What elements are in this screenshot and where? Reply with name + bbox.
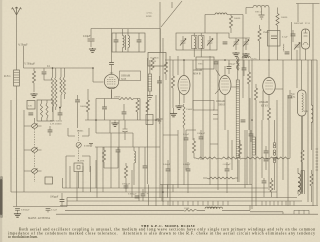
wire: R1 to ground [33, 83, 35, 92]
capacitor C32 [241, 120, 246, 122]
wire: R20 leads [311, 170, 313, 202]
capacitor C20 [291, 34, 296, 36]
wire: earth line [13, 198, 67, 207]
variable capacitor VC5 [233, 40, 239, 47]
wire: V1 grid from aerial bus [93, 68, 104, 82]
tube V4 output envelope [263, 78, 276, 95]
wire: coupling tap [23, 46, 25, 68]
wire: C14 leads [144, 147, 146, 193]
wire: C31 leads [250, 130, 252, 142]
wire: chassis bus 5 [67, 172, 302, 201]
resistor R15 long dropper third [243, 157, 267, 159]
svg-text:½ 500µµF: ½ 500µµF [24, 63, 35, 66]
wire: C8 leads [115, 33, 117, 52]
capacitor C39 [264, 151, 269, 153]
svg-text:0.0005: 0.0005 [77, 131, 84, 133]
wire: C42 leads [111, 29, 113, 66]
wire: R4 leads [137, 99, 139, 121]
wire: lower HT rail [85, 119, 160, 121]
svg-text:0.04µF: 0.04µF [163, 163, 171, 166]
wire: R2 leads [87, 89, 89, 120]
wire: C43 leads [228, 60, 230, 74]
wire: staircase step [250, 212, 283, 215]
capacitor C7 0.04 [88, 39, 95, 41]
wire: L2 leads [61, 68, 64, 107]
capacitor C11 [122, 112, 127, 114]
capacitor C10 [102, 107, 107, 109]
wire: HT bus right [277, 50, 317, 205]
resistor R21 [164, 62, 167, 74]
tube V1 anode [108, 86, 115, 88]
wire: R17 leads [193, 138, 195, 158]
wire: V2 gnd stub [173, 108, 175, 112]
wire: R12 leads [277, 8, 279, 61]
svg-text:100µµF: 100µµF [122, 183, 131, 186]
capacitor C42 top-cap coupler [109, 63, 114, 65]
IF transformer T1 windings [123, 35, 130, 50]
svg-text:+0.04µF: +0.04µF [222, 163, 231, 166]
wire: VC6 leads [245, 38, 247, 50]
svg-text:R.F.C.: R.F.C. [207, 207, 213, 209]
wire: comb of drops onto bus A right [262, 201, 294, 206]
capacitor C21 [285, 52, 290, 54]
ground below VC5 [232, 52, 239, 56]
wire: comb of drops onto bus A left [163, 201, 228, 206]
ground below C38 [157, 119, 163, 123]
inductor L5 oscillator coil [134, 151, 136, 163]
resistor R12 [276, 14, 279, 26]
wire: chassis bus 7 [65, 206, 250, 211]
wire: osc box outline [176, 33, 217, 50]
transformer T3 output primary [298, 174, 300, 191]
wire: C17 leads [216, 60, 220, 76]
switch unit box [148, 53, 166, 67]
ground below V2 [175, 105, 182, 109]
capacitor C38 [157, 81, 162, 83]
capacitor C25 [186, 169, 191, 171]
inductor L10 coil form [148, 74, 151, 91]
resistor R4 [136, 100, 139, 112]
wire: C5 leads [47, 211, 49, 213]
variable capacitor VC7 [294, 43, 300, 50]
capacitor C6 100 [60, 200, 65, 202]
wire: R9 leads [248, 60, 250, 130]
capacitor C40 [264, 159, 269, 161]
wire: chassis bus 4 [67, 197, 297, 199]
resistor R29 second dropper row [207, 177, 235, 179]
capacitor C4 0.002 [15, 208, 20, 210]
wire: C27 column [274, 120, 276, 190]
wire: gang2 shaft dashed [78, 130, 80, 162]
svg-text:X 63: X 63 [121, 78, 127, 81]
trimmer box L.W. [27, 101, 35, 110]
variable capacitor VC1c (tuning gang) [32, 169, 38, 174]
transformer T3 secondary [298, 183, 300, 196]
ground cup right of VC2 [89, 144, 93, 147]
wire: L10 leads [149, 60, 151, 95]
wire: chassis bus 6 [60, 205, 318, 207]
wire: R24 top lead [237, 60, 239, 182]
inductor L8 IF choke [215, 13, 227, 15]
tube V4 anode bar [267, 79, 272, 81]
ground below C7 [89, 48, 96, 52]
wire: R29 leads [203, 177, 238, 179]
wire: T3 leads [298, 168, 305, 194]
svg-text:0.04µF: 0.04µF [83, 35, 91, 38]
wire: centre verticals long [163, 38, 247, 202]
wire: VC3 leads [182, 36, 184, 50]
tube V3 electrodes [222, 81, 229, 90]
capacitor C35 [48, 130, 53, 132]
wire: V2 leads [180, 60, 185, 105]
wire: mains top rail [292, 4, 320, 61]
wire: R22 leads [172, 60, 174, 108]
resistor R14 long dropper second [219, 157, 243, 159]
capacitor C5 500 [46, 208, 51, 210]
inductor L9 hum filter [282, 44, 285, 51]
capacitor C15 electrolytic [141, 192, 149, 196]
wire: V1 anode rise [111, 73, 113, 75]
wire: mid verticals [96, 58, 156, 206]
capacitor C27 electrolytic stack [273, 143, 276, 163]
capacitor C37 [28, 113, 33, 115]
tube V6 inner filament coil [302, 93, 303, 112]
inductor L14 smoothing choke [311, 105, 313, 122]
wire: L14 leads [310, 60, 312, 150]
junction dot [59, 107, 61, 109]
resistor R8 long cathode [183, 104, 185, 128]
tube V1 frequency changer envelope [104, 74, 118, 88]
wire: V1 column drops [96, 90, 112, 133]
svg-text:0.002µF: 0.002µF [21, 209, 30, 212]
wire: diagonal switch arm [161, 1, 182, 27]
capacitor C22 [184, 138, 189, 140]
wire: C26 leads [226, 162, 228, 193]
wire: R21 lead [165, 74, 167, 80]
wire: L1 top/bottom leads [53, 68, 56, 112]
wire: long feed right [242, 15, 244, 61]
wire: C15 leads [142, 189, 144, 201]
resistor R25 inline on bus [183, 209, 197, 211]
svg-text:0.1µF: 0.1µF [282, 36, 288, 39]
wire: V3 leads [215, 66, 239, 130]
resistor R22 [171, 76, 174, 88]
tube V3 anode bar [223, 77, 228, 79]
tube V5 rectifier envelope [302, 29, 310, 49]
resistor R1 0.25M [32, 71, 35, 83]
wire: C20 leads [292, 30, 294, 42]
wire: grid-leak drop [33, 68, 35, 71]
tube V2 oscillator envelope [178, 76, 190, 95]
wire: cap drop C2 [43, 68, 45, 71]
gutter shadow left edge [0, 176, 3, 218]
resistor R20 speaker field [310, 174, 313, 186]
capacitor C28 [262, 181, 267, 183]
wire: gang2 taps [66, 128, 90, 188]
inductor L13 inline on bus [205, 207, 223, 209]
svg-text:0.1µF: 0.1µF [51, 209, 58, 212]
oscillator section box [196, 57, 214, 69]
tube V3 detector envelope [219, 76, 231, 95]
wire: R10 leads [255, 84, 257, 206]
inductor L1 secondary [55, 77, 57, 107]
small box lower-left of V2 [146, 115, 153, 125]
ground mid [111, 122, 118, 126]
svg-text:50000: 50000 [80, 105, 87, 108]
tube V1 top cap [110, 71, 113, 75]
svg-text:¼ 50µµF: ¼ 50µµF [18, 44, 28, 47]
svg-text:100µµF: 100µµF [228, 64, 236, 66]
wire: coil leads [42, 100, 48, 121]
capacitor C29 [124, 186, 129, 188]
wire: aerial down-lead [16, 15, 18, 207]
wire: VC bus [217, 33, 250, 38]
wire: V4 leads [263, 60, 283, 120]
svg-text:to modulation hum.: to modulation hum. [8, 235, 38, 239]
capacitor C36 boxed [268, 31, 281, 47]
resistor R3 horizontal [118, 97, 134, 99]
wire: L6 L7 leads [194, 33, 201, 57]
wire: C13 leads [117, 147, 119, 168]
wire: C18 leads [243, 60, 245, 76]
variable capacitor VC1b (tuning gang) [32, 148, 38, 153]
svg-text:100µµF: 100µµF [50, 196, 59, 199]
wire: stair verticals [70, 120, 173, 206]
wire: HT top rail [165, 59, 317, 61]
wire: VC4 leads [209, 36, 211, 50]
wire: chassis bus 3 [11, 191, 277, 193]
resistor R16 long dropper fourth [267, 157, 290, 159]
inductor L4 bandpass coil b [46, 103, 48, 118]
resistor R19 [270, 180, 273, 192]
label block MW LW [50, 121, 63, 126]
wire: T1 leads [123, 29, 129, 52]
svg-text:OSC 2: OSC 2 [255, 11, 262, 14]
resistor R27 [151, 58, 154, 70]
resistor R18 [238, 144, 241, 156]
tube V2 anode bar [182, 90, 187, 92]
svg-text:LINE: LINE [146, 15, 152, 18]
wire: top centre risers [160, 10, 205, 206]
svg-text:L.W. 0.0003: L.W. 0.0003 [50, 124, 62, 126]
inductor L2 second winding [63, 77, 65, 95]
wire: L5 leads [133, 147, 135, 185]
wire: dropper row ends [194, 150, 290, 158]
ground below T2 [259, 15, 265, 19]
variable capacitor VC3 trimmer [180, 39, 186, 46]
capacitor C3 padder [58, 113, 63, 115]
wire: R5 leads [103, 147, 105, 168]
trimmer box osc [74, 163, 83, 172]
capacitor C17 [214, 62, 219, 64]
variable capacitor VC4 trimmer [207, 39, 213, 46]
svg-text:100µµF: 100µµF [197, 132, 206, 135]
capacitor C24 [166, 169, 171, 171]
wire: top edge stubs [160, 2, 172, 10]
svg-text:R.F.C.: R.F.C. [4, 75, 11, 78]
resistor R26 [258, 29, 261, 41]
capacitor C30 [135, 196, 140, 198]
resistor R24 volume control track [236, 80, 239, 158]
wire: R23 leads [302, 116, 304, 194]
wire: R3 row [134, 99, 140, 121]
inductor L3 bandpass coil a [40, 103, 42, 118]
resistor R23 (below V6) [301, 150, 304, 162]
resistor R13 long dropper [196, 157, 219, 159]
tube V4 electrodes [266, 83, 273, 89]
svg-text:X 64: X 64 [291, 96, 297, 99]
wire: R7 leads [230, 15, 232, 34]
svg-text:CLOSE: CLOSE [77, 161, 85, 163]
wire: R19 leads [271, 178, 273, 197]
resistor R5 [102, 150, 105, 162]
inductor L7 osc coil II [199, 36, 205, 49]
wire: gang coupling shaft [34, 129, 36, 182]
wire: mid row B [95, 146, 160, 148]
resistor R6 [124, 166, 127, 178]
wire: R18 leads [239, 140, 241, 158]
wire: comb right of rule [294, 210, 309, 214]
wire: L8 leads [205, 14, 243, 16]
wire: gang link dashed [34, 118, 36, 123]
variable capacitor VC6 [243, 40, 249, 47]
resistor R9 [247, 72, 250, 84]
wire: C7 to ground [90, 42, 92, 48]
svg-text:0.0003: 0.0003 [84, 146, 91, 148]
svg-text:MS4 B: MS4 B [193, 72, 201, 75]
wire: C2 lower lead [44, 74, 52, 80]
ground below R1 [30, 93, 37, 97]
wire: C39 C40 leads [265, 146, 267, 170]
wire: short connectors centre [163, 130, 218, 144]
capacitor C43 [227, 67, 232, 69]
svg-text:15000: 15000 [186, 108, 193, 111]
wire: R6 leads [125, 163, 127, 189]
label box V3 [193, 101, 214, 111]
capacitor C14 [143, 166, 148, 168]
wire: V5 leads [300, 42, 306, 60]
svg-text:M.W. 0.0005: M.W. 0.0005 [50, 121, 63, 123]
wire: AVC feed dashes [213, 110, 218, 119]
antenna [12, 7, 22, 15]
wire: C9 leads [138, 33, 140, 52]
inductor L15 lattice choke [237, 56, 240, 70]
wire: right extra verticals [178, 60, 313, 209]
resistor R10 [254, 88, 257, 100]
capacitor C16 [223, 42, 228, 44]
wire: C25 leads [187, 162, 189, 193]
wire: V1 cathode drop [96, 89, 118, 99]
tube V5 electrodes [303, 29, 308, 45]
wire: gang rail links [24, 110, 28, 192]
wire: C24 leads [167, 160, 169, 189]
inductor L11 field winding ticks [316, 149, 319, 170]
tube V1 grid bars [107, 77, 116, 84]
IF transformer T1 box [112, 33, 145, 52]
inductor L12 HT choke [242, 57, 250, 59]
svg-text:50000: 50000 [234, 17, 241, 20]
wire: C11 leads [123, 104, 125, 120]
wire: C6 leads [61, 193, 63, 207]
variable capacitor VC1a (tuning gang) [32, 124, 38, 129]
svg-text:U 31: U 31 [305, 22, 311, 25]
wire: R8 tail [183, 128, 185, 185]
transformer T3 core [301, 171, 303, 193]
svg-text:0.04µF: 0.04µF [183, 163, 191, 166]
capacitor C9 (T1 secondary tune) [137, 40, 142, 42]
inductor RFC1 (R.F. choke in aerial lead) [14, 70, 20, 86]
wire: T2 leads [246, 8, 269, 61]
wire: bottom rule [56, 213, 318, 215]
wire: C28 leads [263, 178, 265, 197]
wire: C10 leads [96, 99, 105, 121]
capacitor C8 (T1 primary tune) [114, 40, 119, 42]
resistor R28 [146, 100, 149, 112]
wire: V6 leads [301, 60, 303, 194]
svg-text:0.005µF: 0.005µF [128, 193, 137, 196]
wire: C41 leads [77, 95, 79, 128]
svg-text:DH 63: DH 63 [218, 103, 226, 106]
label box V1 [120, 71, 141, 81]
inductor T2 oscillator anode coil [253, 5, 269, 7]
wire: padder leads [59, 108, 61, 121]
svg-text:MAINS ANTENNA: MAINS ANTENNA [28, 217, 50, 220]
inductor L1 aerial coil primary [51, 77, 53, 107]
capacitor C23 [199, 137, 204, 139]
svg-text:150Ω: 150Ω [184, 208, 189, 210]
wire: C23 leads [200, 130, 202, 160]
svg-text:0.1µF: 0.1µF [183, 133, 190, 136]
wire: IF1 top feed [91, 29, 160, 53]
wire: C12 leads [124, 120, 126, 140]
wire: V1 top cap lead [111, 66, 113, 71]
capacitor C31 [249, 134, 254, 136]
svg-text:50000: 50000 [281, 16, 288, 19]
wire: gang side taps [28, 126, 42, 171]
page edge shading [0, 0, 2, 242]
wire: mid column A [96, 133, 133, 147]
wire: aerial input bus [24, 67, 94, 69]
resistor R2 oscillator grid leak [86, 100, 89, 112]
ground below L10 [147, 96, 153, 100]
capacitor C41 [75, 100, 80, 102]
tube V2 electrodes [181, 80, 188, 89]
capacitor C19 [288, 96, 293, 98]
capacitor C12 topcoupler [122, 129, 127, 132]
ground: mains earth [14, 213, 21, 217]
wire: AVC return frame [10, 100, 12, 192]
wire: T2 gnd stub [261, 8, 263, 15]
resistor R7 [229, 16, 232, 28]
wire: R11 tail [268, 120, 270, 190]
inductor L6 osc coil I [192, 36, 198, 49]
resistor R11 cathode bias [267, 108, 270, 120]
inductor L2 aerial coil LW [60, 77, 62, 95]
capacitor C18 [242, 68, 247, 70]
wire: bandpass box [37, 100, 53, 121]
ground below VC6 [242, 53, 249, 57]
component box lower [45, 177, 53, 184]
wire: C4 to ground [17, 211, 19, 213]
capacitor C13 [116, 150, 121, 152]
svg-text:KT 63: KT 63 [261, 104, 268, 107]
wire: chassis bus 2 [63, 178, 269, 188]
wire: chassis bus 1 [160, 184, 252, 186]
svg-text:OSC: OSC [198, 63, 203, 66]
wire: C38 leads [159, 76, 161, 118]
wire: C19 leads [289, 90, 291, 150]
tube V6 tuning indicator envelope [298, 90, 307, 116]
